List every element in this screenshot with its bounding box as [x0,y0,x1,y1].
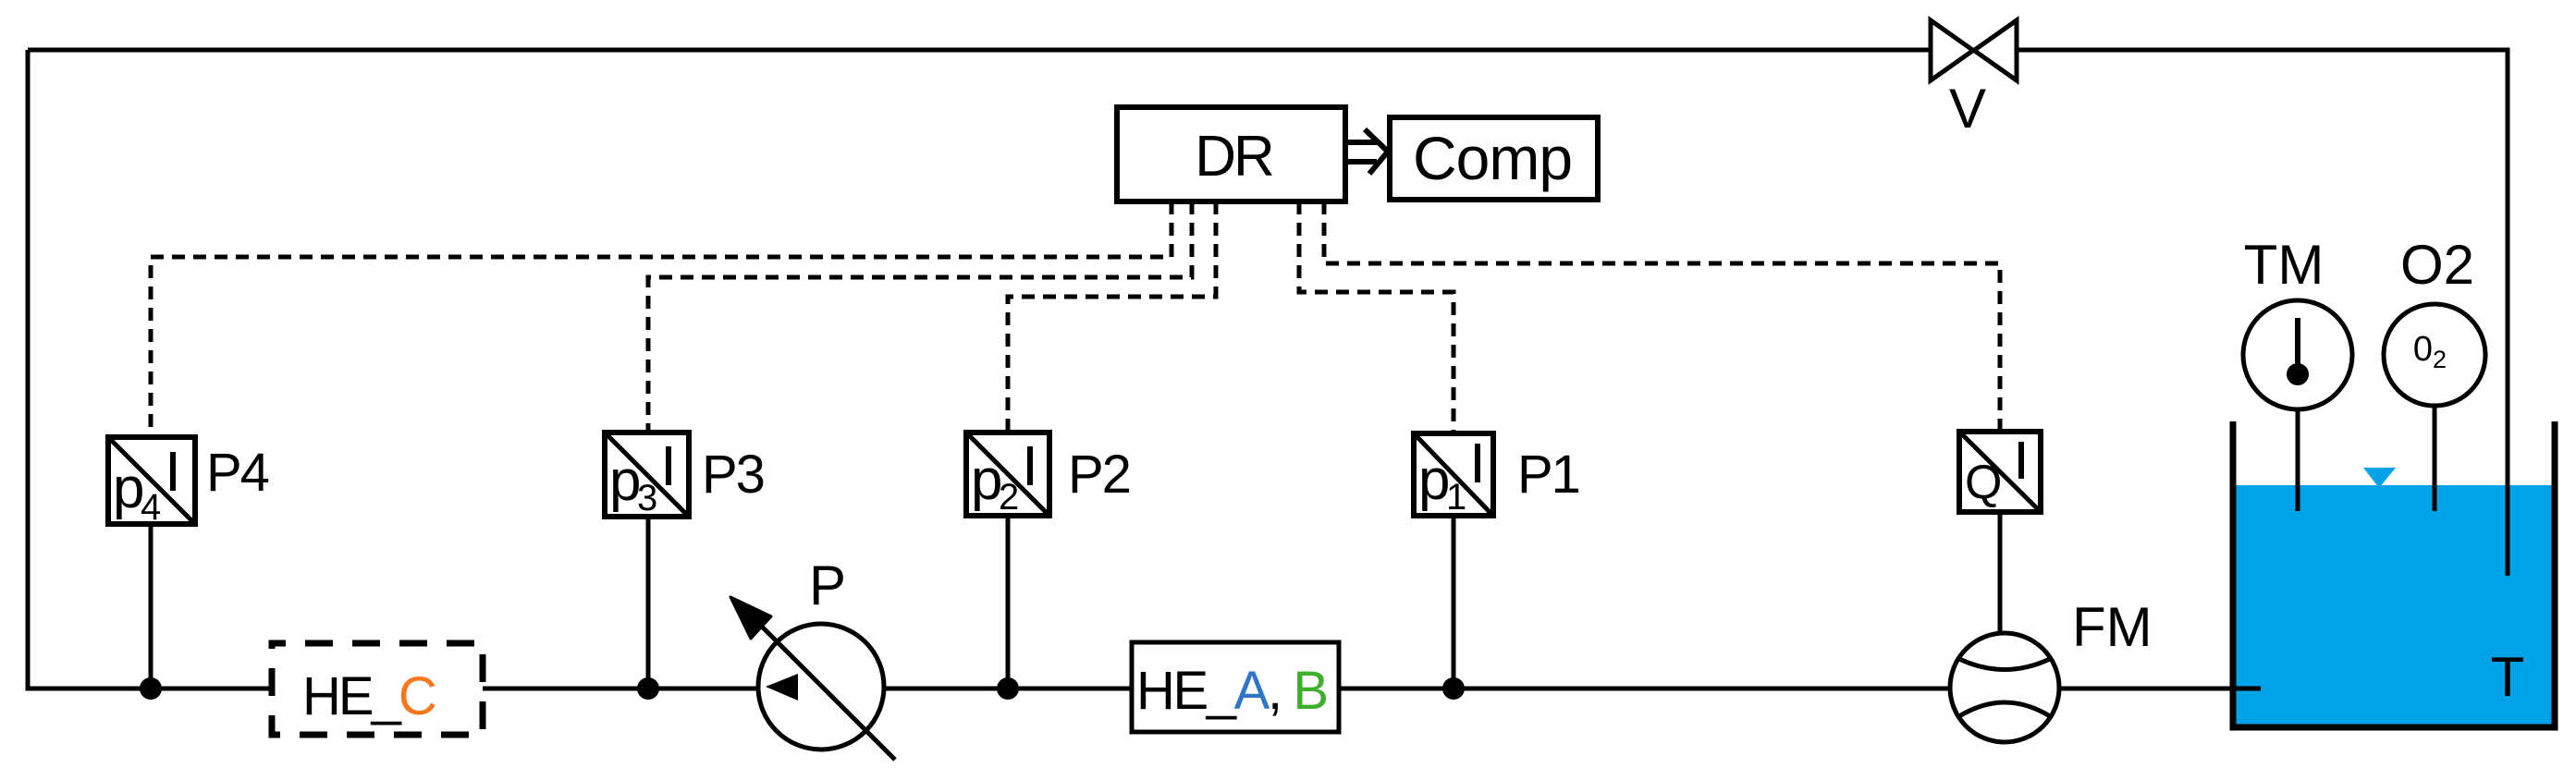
svg-text:P2: P2 [1068,445,1130,505]
svg-text:P3: P3 [702,445,764,505]
svg-text:O2: O2 [2400,234,2474,296]
svg-text:3: 3 [637,478,657,518]
svg-text:DR: DR [1195,125,1272,189]
svg-text:1: 1 [1446,477,1466,518]
svg-text:HE_C: HE_C [302,666,435,726]
svg-text:P4: P4 [206,443,269,503]
svg-text:V: V [1949,78,1986,140]
svg-text:T: T [2491,646,2525,708]
svg-text:P1: P1 [1517,445,1579,505]
svg-text:TM: TM [2244,234,2325,296]
svg-text:FM: FM [2072,596,2153,658]
svg-text:4: 4 [141,487,161,528]
svg-text:2: 2 [999,477,1019,518]
svg-text:HE_A, B: HE_A, B [1136,661,1327,721]
svg-text:Comp: Comp [1413,124,1572,192]
svg-text:Q: Q [1965,456,2002,509]
svg-text:P: P [809,555,846,616]
